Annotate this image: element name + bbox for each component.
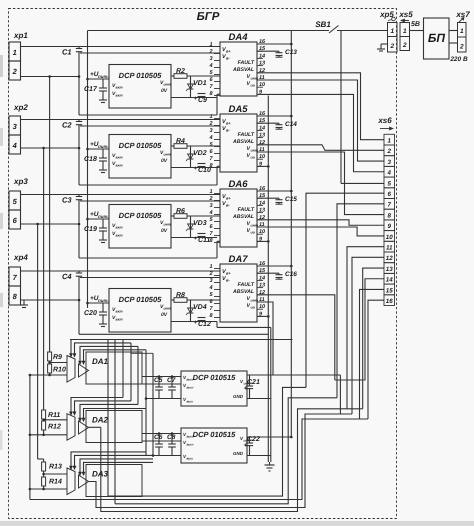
svg-text:C20: C20 (84, 310, 97, 317)
svg-text:C15: C15 (285, 196, 297, 203)
DC/DC converter DCP 010515 #1 (181, 371, 247, 406)
wire DA6 pin16 to 5V rail (257, 190, 291, 192)
svg-text:10: 10 (259, 82, 265, 88)
svg-text:DA4: DA4 (228, 32, 248, 43)
svg-text:в+: в+ (226, 121, 231, 126)
svg-text:DA2: DA2 (92, 416, 109, 425)
wire DA1 loop input 1 (71, 340, 293, 358)
comparator input stage DA2 (trapezoid) (67, 414, 75, 441)
svg-text:8: 8 (387, 212, 391, 219)
connector xs6 pin 10 (384, 231, 395, 242)
node junction xp4B (78, 299, 81, 302)
svg-text:13: 13 (259, 208, 265, 214)
wire rail up to DA4 pin 8 (216, 94, 218, 115)
wire C3 to DA6 pin 2 (80, 200, 220, 202)
svg-text:1: 1 (460, 28, 464, 35)
svg-text:2: 2 (12, 67, 18, 76)
DC/DC converter U1 DCP 010505 (109, 65, 171, 109)
svg-text:3: 3 (209, 203, 212, 209)
wire divider chain ch2 (x43.6) (43, 148, 45, 410)
isolation amplifier DA5 (220, 114, 257, 172)
wire DA2 loop input 3 (80, 404, 138, 421)
wire DCP#1 GND to rail (247, 398, 271, 400)
wire bundle vertical x123 (122, 340, 124, 398)
svg-text:3: 3 (209, 278, 212, 284)
svg-text:C2: C2 (62, 121, 72, 130)
svg-text:2: 2 (459, 44, 464, 51)
op-amp DA3 block (86, 465, 142, 497)
wire C1 to DA4 pin 2 (80, 52, 220, 54)
wire DA1 output to DCP#1 Vout+ (142, 376, 181, 378)
wire - 5V vertical to xs6 pin5 (340, 31, 342, 184)
svg-text:1: 1 (390, 28, 394, 35)
svg-text:R11: R11 (48, 412, 60, 419)
node junction xp2B (78, 147, 81, 150)
svg-text:пит.: пит. (98, 144, 109, 149)
connector xs6 pin 4 (384, 166, 395, 177)
DC/DC converter U2 DCP 010505 (109, 135, 171, 179)
wire БП to xs7 pin2 (449, 42, 458, 44)
svg-text:4: 4 (208, 210, 212, 216)
wire bundle bottom path P4 (30, 419, 368, 500)
svg-text:FAULT: FAULT (238, 132, 255, 138)
svg-text:C18: C18 (84, 156, 97, 163)
svg-text:ABSVAL: ABSVAL (232, 139, 254, 145)
svg-text:3: 3 (209, 128, 212, 134)
svg-text:вых: вых (187, 400, 194, 404)
svg-text:220 В: 220 В (449, 56, 468, 63)
wire DCP#1 lower pin (146, 398, 181, 400)
svg-text:вых: вых (187, 457, 194, 461)
wire xp2 pin A to DA5 pin 1 (21, 119, 221, 121)
wire R11-R12 link (43, 419, 45, 421)
resistor R14 (42, 477, 46, 486)
wire bundle vertical x115 (114, 340, 116, 504)
amplifier DA2 (triangle) (79, 421, 89, 434)
resistor R11 (42, 410, 46, 419)
ground - bottom common (269, 462, 271, 465)
wire DCP#2 GND to rail (247, 455, 271, 457)
svg-text:вхт: вхт (116, 164, 123, 168)
svg-text:вхт: вхт (116, 310, 123, 314)
wire DA2 loop input 4 (84, 409, 147, 422)
wire DCP#1 Vint+ long horizontal (247, 374, 340, 376)
svg-text:1: 1 (403, 28, 407, 35)
DC/DC converter U4 DCP 010505 (109, 289, 171, 333)
wire riser to xs6 pin14 (335, 279, 384, 380)
svg-text:2: 2 (402, 42, 407, 49)
wire bundle bottom path P2 (115, 398, 337, 504)
wire bundle vertical x138 (137, 346, 139, 404)
connector xs6 pin 14 (384, 273, 395, 284)
svg-text:+: + (194, 166, 198, 172)
wire C4 to DA7 pin 2 (80, 277, 220, 279)
connector xs6 pin 3 (384, 156, 395, 167)
wire DA1 loop input 3 (80, 346, 138, 364)
wire DA7 pin9 to GND rail (257, 315, 268, 317)
svg-text:C14: C14 (285, 121, 297, 128)
svg-text:ABSVAL: ABSVAL (232, 289, 254, 295)
DC/DC converter U3 DCP 010505 (109, 205, 171, 249)
wire riser to xs6 pin7 (337, 204, 384, 398)
svg-text:13: 13 (259, 283, 265, 289)
capacitor C16 (257, 272, 279, 274)
wire rail up to DA6 pin 8 (216, 241, 218, 258)
wire VD1 to DA4 (171, 97, 217, 99)
svg-text:2: 2 (208, 121, 212, 127)
wire GND rail B (270, 327, 272, 462)
wire DCP#2 Vint+ to 5V rail (247, 436, 291, 438)
svg-text:3: 3 (387, 159, 391, 166)
wire DA3 loop input 2 (75, 455, 154, 469)
svg-text:R9: R9 (53, 354, 62, 361)
svg-text:в+: в+ (226, 196, 231, 201)
connector xs6 pin 11 (384, 241, 395, 252)
svg-text:C6: C6 (154, 434, 163, 441)
wire bundle bottom path P1 (108, 387, 306, 496)
svg-text:10: 10 (386, 234, 393, 241)
svg-text:C3: C3 (62, 196, 72, 205)
connector xs6 pin 7 (384, 199, 395, 210)
wire R14 down (43, 486, 45, 489)
wire VD3 to DA6 (171, 237, 217, 239)
svg-text:4: 4 (208, 285, 212, 291)
wire R10 down to DA1 input (49, 373, 51, 375)
svg-text:C17: C17 (84, 86, 98, 93)
connector xs6 pin 16 (384, 295, 395, 306)
connector xs6 pin 2 (384, 145, 395, 156)
svg-text:DA5: DA5 (228, 104, 248, 115)
svg-text:вых+: вых+ (187, 435, 195, 439)
svg-text:DCP 010515: DCP 010515 (193, 373, 236, 382)
svg-text:+: + (194, 96, 198, 102)
amplifier DA1 (triangle) (79, 364, 89, 377)
isolation amplifier DA6 (220, 189, 257, 247)
svg-text:3: 3 (209, 56, 212, 62)
power supply БП (424, 18, 450, 59)
svg-text:C5: C5 (154, 377, 163, 384)
svg-text:DCP 010505: DCP 010505 (119, 295, 162, 304)
node junction xp1B (78, 75, 81, 78)
wire divider chain ch1 (x49.6) (49, 77, 51, 353)
capacitor C14 (257, 122, 279, 124)
connector xs6 pin 15 (384, 284, 395, 295)
svg-text:FAULT: FAULT (238, 60, 255, 66)
wire R13-R14 link (43, 471, 45, 477)
comparator input stage DA3 (trapezoid) (67, 468, 75, 495)
wire DA5 pin9 to GND rail (257, 165, 268, 167)
svg-text:VD2: VD2 (193, 150, 207, 157)
wire to DCP#2 Vout- (142, 440, 181, 442)
svg-text:16: 16 (386, 298, 393, 305)
scan artifacts (0, 521, 474, 526)
op-amp DA1 block (86, 352, 142, 384)
svg-text:C13: C13 (285, 49, 297, 56)
wire R9-R10 link (49, 361, 51, 364)
svg-text:2: 2 (386, 148, 391, 155)
DA5 left pins 1-8 (214, 118, 220, 120)
wire DA7 pin16 to 5V rail (257, 265, 291, 267)
svg-text:C8: C8 (167, 434, 176, 441)
svg-text:11: 11 (386, 245, 393, 252)
wire bundle vertical x131 (130, 343, 132, 401)
svg-text:R13: R13 (49, 464, 62, 471)
wire DA5 pin16 to 5V rail (257, 115, 291, 117)
wire xp2 pin B to C2 node (21, 147, 80, 149)
svg-text:xp4: xp4 (13, 253, 28, 262)
wire DA6 pin12 to xs6 pin9 (257, 220, 384, 225)
svg-text:пит.: пит. (98, 74, 109, 79)
wire DA6 pin11 to xs6 pin10 (257, 227, 384, 236)
wire lower rail ch3 (79, 257, 217, 259)
wire БП to xs7 pin1 (449, 30, 458, 32)
wire DA5 pin12 to xs6 pin2 (257, 145, 384, 151)
svg-text:xp1: xp1 (13, 31, 28, 40)
svg-text:14: 14 (259, 200, 265, 206)
svg-text:вхт: вхт (116, 156, 123, 160)
svg-text:14: 14 (259, 125, 265, 131)
wire DA3 loop input 4 (84, 462, 154, 475)
svg-text:5В: 5В (411, 21, 420, 28)
wire DA2 loop input 1 (71, 398, 123, 416)
wire DA7 pin12 down to bundle (257, 295, 335, 380)
svg-text:вхт: вхт (116, 226, 123, 230)
svg-text:ABSVAL: ABSVAL (232, 67, 254, 73)
DA6 left pins 1-8 (214, 193, 220, 195)
capacitor C15 (257, 197, 279, 199)
capacitor C13 (257, 50, 279, 52)
wire C2 to DA5 pin 2 (80, 125, 220, 127)
svg-text:xp3: xp3 (13, 177, 28, 186)
svg-text:вхт: вхт (116, 86, 123, 90)
isolation amplifier DA7 (220, 264, 257, 322)
БГР block boundary (dashed frame) (9, 9, 397, 519)
svg-text:VD3: VD3 (193, 220, 207, 227)
DC/DC converter DCP 010515 #2 (181, 428, 247, 463)
svg-text:GND: GND (233, 394, 244, 399)
svg-text:1: 1 (209, 114, 212, 120)
wire ch4 lower to GND rail (216, 322, 218, 328)
wire DA3 lower input (30, 488, 67, 490)
svg-text:DCP 010505: DCP 010505 (119, 71, 162, 80)
svg-text:4: 4 (208, 63, 212, 69)
svg-text:БП: БП (428, 31, 445, 45)
svg-text:2: 2 (208, 271, 212, 277)
wire lower rail ch4 (79, 333, 268, 335)
connector xs6 pin 9 (384, 220, 395, 231)
svg-text:C7: C7 (167, 377, 176, 384)
svg-text:1: 1 (209, 189, 212, 195)
wire DA3 loop input 1 (71, 452, 146, 470)
wire riser to xs6 pin16 (368, 300, 384, 419)
op-amp DA2 block (86, 411, 142, 443)
svg-text:+: + (244, 443, 248, 449)
svg-text:10: 10 (259, 154, 265, 160)
wire DA1 loop input 2 (75, 343, 132, 357)
wire DA2 output to DCP#2 Vout+ (142, 433, 181, 435)
wire DCP#2 lower pin (153, 455, 181, 457)
wire DA7 pin11 to mid bundle (257, 302, 273, 375)
wire xp4 pin A to DA7 pin 1 (21, 270, 221, 272)
wire DA1 loop input 4 (84, 350, 147, 365)
svg-text:0V: 0V (161, 88, 168, 94)
DA4 left pins 1-8 (214, 46, 220, 48)
svg-text:+: + (244, 386, 248, 392)
wire common input rail x29.9 (29, 375, 31, 500)
wire - 5V rail left corner down (left supply rail) (87, 31, 89, 309)
svg-text:9: 9 (387, 223, 391, 230)
svg-text:xp2: xp2 (13, 103, 28, 112)
svg-text:инт: инт (164, 83, 171, 87)
wire bundle vertical x146 (145, 350, 147, 456)
svg-text:DA7: DA7 (228, 254, 248, 265)
wire xp1 pin A to DA4 pin 1 (21, 46, 221, 48)
wire DA6 pin9 to GND rail (257, 240, 268, 242)
wire - 5V rail from SB1 switch to xp5 (88, 30, 330, 32)
svg-text:DA6: DA6 (228, 179, 248, 190)
wire GND rail A (267, 96, 269, 463)
svg-text:C4: C4 (62, 272, 72, 281)
wire DA2 lower input (30, 434, 67, 436)
connector xs6 pin 12 (384, 252, 395, 263)
wire bundle vertical x153 (152, 353, 154, 455)
svg-text:БГР: БГР (197, 11, 220, 23)
wire xs5 to БП (410, 30, 424, 32)
resistor R10 (48, 364, 52, 373)
wire lower rail ch2 (79, 184, 217, 186)
DA4 right pins 16-9 (257, 43, 263, 45)
svg-text:C19: C19 (84, 226, 97, 233)
connector xs6 pin 1 (384, 134, 395, 145)
wire DA4 pin12 to xs6 pin1 (257, 73, 384, 140)
svg-text:1: 1 (209, 264, 212, 270)
svg-text:инт: инт (164, 153, 171, 157)
svg-text:+: + (194, 320, 198, 326)
connector xs6 pin 13 (384, 263, 395, 274)
wire divider chain ch3 (x37.6) (37, 224, 39, 459)
wire VD4 to DA7 (171, 321, 217, 323)
svg-text:SB1: SB1 (315, 20, 331, 29)
svg-text:13: 13 (386, 266, 393, 273)
svg-text:2: 2 (208, 196, 212, 202)
wire bundle bottom path P3 (101, 409, 363, 512)
svg-text:14: 14 (386, 277, 393, 284)
svg-text:C21: C21 (247, 379, 260, 386)
svg-text:xs5: xs5 (398, 10, 413, 19)
svg-text:7: 7 (387, 202, 391, 209)
svg-text:пит.: пит. (98, 298, 109, 303)
wire DA1 loop top long (70, 339, 123, 341)
comparator input stage DA1 (trapezoid) (67, 356, 75, 383)
svg-text:C22: C22 (247, 436, 260, 443)
wire DA4 pin16 to 5V rail (257, 43, 291, 45)
wire lower rail ch1 (79, 114, 217, 116)
svg-text:вхт: вхт (116, 94, 123, 98)
wire DA2 loop input 2 (75, 401, 132, 415)
svg-text:2: 2 (208, 49, 212, 55)
wire xp4 pin B to C4 node (21, 299, 80, 301)
svg-text:10: 10 (259, 229, 265, 235)
wire riser to xs6 pin13 (363, 268, 384, 409)
wire riser to xs6 pin6 (306, 193, 384, 387)
svg-text:+: + (194, 236, 198, 242)
svg-text:R12: R12 (48, 424, 61, 431)
svg-text:1: 1 (13, 48, 17, 57)
wire DA3 output path (89, 414, 353, 508)
svg-text:1: 1 (387, 138, 391, 145)
wire VD2 to DA5 (171, 167, 217, 169)
connector xs6 pin 5 (384, 177, 395, 188)
svg-text:вых+: вых+ (187, 378, 195, 382)
svg-text:DA1: DA1 (92, 357, 109, 366)
wire riser to xs6 pin11 (347, 247, 384, 409)
wire - 5V vertical rail x291 (290, 31, 292, 438)
wire DA4 pin9 to xs6 pin4 (257, 94, 384, 171)
wire riser to xs6 pin15 (360, 289, 385, 419)
svg-text:2: 2 (389, 43, 394, 50)
switch SB1 (329, 26, 339, 34)
isolation amplifier DA4 (220, 42, 257, 96)
svg-text:инт: инт (164, 307, 171, 311)
wire DA2 output to bundle (89, 426, 101, 428)
svg-text:вхт: вхт (116, 318, 123, 322)
DA6 right pins 16-9 (257, 190, 263, 192)
svg-text:вых-: вых- (187, 386, 194, 390)
DA7 left pins 1-8 (214, 268, 220, 270)
resistor R12 (42, 421, 46, 430)
svg-text:инт: инт (164, 223, 171, 227)
svg-text:R10: R10 (53, 367, 66, 374)
svg-text:в+: в+ (226, 49, 231, 54)
svg-text:5: 5 (387, 180, 391, 187)
amplifier DA3 (triangle) (79, 475, 89, 488)
svg-text:13: 13 (259, 61, 265, 67)
resistor R9 (48, 352, 52, 361)
wire to DCP#1 Vout- (142, 383, 181, 385)
svg-text:R14: R14 (49, 479, 62, 486)
svg-text:14: 14 (259, 275, 265, 281)
svg-text:вых-: вых- (187, 443, 194, 447)
svg-text:GND: GND (233, 451, 244, 456)
ground at xp4 pin 8 (23, 300, 25, 305)
svg-text:пит.: пит. (98, 214, 109, 219)
svg-text:10: 10 (259, 304, 265, 310)
svg-text:FAULT: FAULT (238, 207, 255, 213)
svg-text:VD4: VD4 (193, 304, 207, 311)
svg-text:C9: C9 (198, 97, 207, 104)
svg-text:0V: 0V (161, 228, 168, 234)
node junction xp3B (78, 223, 81, 226)
svg-text:4: 4 (386, 170, 391, 177)
svg-text:в+: в+ (226, 271, 231, 276)
svg-text:VD1: VD1 (193, 80, 207, 87)
svg-text:12: 12 (386, 255, 393, 262)
connector xs6 pin 6 (384, 188, 395, 199)
wire DA3 loop input 3 (80, 459, 153, 476)
svg-text:FAULT: FAULT (238, 282, 255, 288)
DA5 right pins 16-9 (257, 115, 263, 117)
svg-text:C16: C16 (285, 271, 297, 278)
svg-text:0V: 0V (161, 158, 168, 164)
connector xs6 pin 8 (384, 209, 395, 220)
svg-text:0V: 0V (161, 312, 168, 318)
svg-text:6: 6 (387, 191, 391, 198)
svg-text:C1: C1 (62, 48, 72, 57)
ground at xp5 pin 2 (381, 43, 388, 45)
wire DA1 lower input (30, 374, 67, 376)
wire DA4 pin11 to xs6 pin3 (257, 80, 384, 161)
DA7 right pins 16-9 (257, 265, 263, 267)
